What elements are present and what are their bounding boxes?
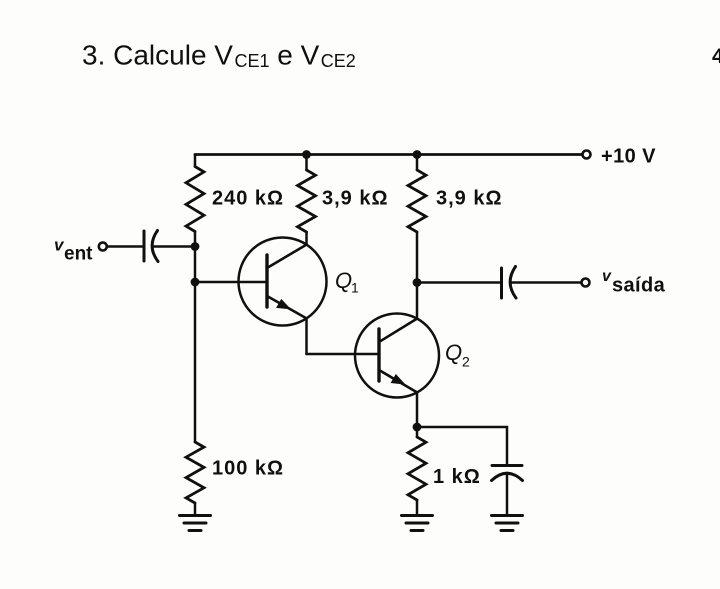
resistor R4 100k (186, 442, 204, 503)
wire C1 to input node (153, 245, 195, 248)
capacitor C3 bypass (492, 466, 523, 481)
svg-text:saída: saída (612, 275, 666, 297)
wire R3 top stub (416, 155, 419, 171)
capacitor C1 input coupling (144, 231, 158, 262)
wire emitter node to R5 (416, 427, 419, 437)
ground G2 (402, 516, 433, 531)
wire 100k to ground (194, 503, 197, 515)
wire base tee to Q1 base (195, 281, 267, 284)
wire 240k bottom to input node (194, 232, 197, 247)
resistor R5 1k (408, 437, 426, 500)
wire Q2 collector up to output node (416, 283, 419, 319)
wire emitter node to bypass cap (417, 427, 507, 465)
svg-text:3. Calcule VCE1 e VCE2: 3. Calcule VCE1 e VCE2 (82, 40, 356, 72)
svg-text:1: 1 (351, 280, 359, 296)
svg-text:4: 4 (712, 45, 720, 68)
wire output node to C2 (417, 281, 502, 284)
resistor R3 3,9k (408, 170, 426, 232)
svg-text:100 kΩ: 100 kΩ (212, 458, 284, 480)
resistor R1 240k (186, 167, 204, 232)
wire base tee down to 100k (194, 282, 197, 442)
wire C2 to output terminal (510, 281, 581, 284)
svg-text:ent: ent (64, 244, 93, 265)
ground G3 (492, 516, 523, 531)
wire input node down to base tee (194, 247, 197, 283)
svg-text:240 kΩ: 240 kΩ (212, 188, 284, 210)
svg-text:1 kΩ: 1 kΩ (433, 466, 481, 488)
svg-text:+10 V: +10 V (601, 146, 656, 168)
wire R5 to ground (416, 500, 419, 515)
wire input terminal to C1 (107, 245, 144, 248)
svg-text:Q: Q (335, 268, 352, 293)
svg-text:3,9 kΩ: 3,9 kΩ (322, 188, 389, 210)
label v_saida (602, 268, 666, 297)
wire R2 top stub (305, 155, 308, 171)
terminal v_ent (99, 243, 107, 251)
svg-text:2: 2 (462, 354, 470, 370)
wire C3 to ground (506, 474, 509, 515)
transistor Q1 (239, 238, 327, 326)
capacitor C2 output coupling (502, 267, 517, 299)
svg-text:Q: Q (445, 340, 462, 365)
label v_ent (54, 236, 93, 265)
label Q1 (335, 268, 359, 296)
wire Q1 collector up (305, 232, 308, 245)
node emitter junction (413, 423, 422, 432)
wire top supply rail (195, 153, 582, 156)
resistor R2 3,9k (298, 170, 316, 232)
node input junction (191, 242, 200, 251)
wire Q1 emitter down (305, 318, 308, 354)
wire Q1 emitter to Q2 base (307, 353, 380, 356)
svg-text:3,9 kΩ: 3,9 kΩ (436, 188, 503, 210)
label Q2 (445, 340, 470, 370)
node rail junction R2 (302, 150, 311, 159)
terminal +10V (583, 151, 591, 159)
node output junction (413, 278, 422, 287)
svg-text:v: v (602, 268, 612, 285)
transistor Q2 (355, 314, 439, 398)
ground G1 (180, 516, 211, 531)
terminal v_saida (582, 279, 590, 287)
node base tee (191, 278, 200, 287)
wire left branch top stub (194, 155, 197, 167)
node rail junction R3 (413, 150, 422, 159)
wire Q2 emitter down (416, 392, 419, 427)
wire output node up to R3 (416, 232, 419, 283)
